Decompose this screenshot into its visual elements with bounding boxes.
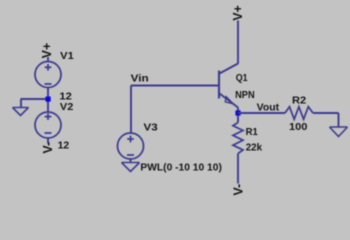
svg-text:R1: R1 — [246, 127, 259, 138]
svg-text:V+: V+ — [231, 5, 245, 21]
wire — [130, 159, 132, 162]
wire — [130, 86, 132, 134]
wire R1 to V- — [237, 154, 239, 184]
svg-text:100: 100 — [289, 122, 308, 133]
svg-text:22k: 22k — [246, 142, 263, 153]
ground (left) — [13, 108, 29, 116]
wire — [313, 112, 339, 114]
svg-text:V2: V2 — [60, 102, 74, 113]
node 12 junction — [46, 97, 51, 102]
voltage source V3 — [118, 133, 144, 159]
svg-text:NPN: NPN — [235, 90, 255, 101]
ground (under V3) — [122, 163, 140, 172]
svg-text:Vout: Vout — [257, 103, 280, 114]
svg-text:V-: V- — [231, 184, 245, 196]
wire — [47, 138, 49, 144]
resistor R2 — [285, 107, 313, 120]
wire node to R1 — [237, 116, 239, 123]
svg-text:Q1: Q1 — [236, 73, 248, 84]
wire — [47, 88, 49, 113]
svg-text:12: 12 — [58, 141, 70, 152]
wire — [338, 113, 340, 127]
svg-text:V1: V1 — [60, 51, 74, 62]
wire Vin horizontal — [131, 85, 219, 87]
transistor Q1 — [219, 64, 238, 114]
svg-text:R2: R2 — [292, 95, 307, 106]
svg-text:V-: V- — [41, 142, 55, 154]
svg-text:V3: V3 — [144, 123, 159, 134]
svg-text:Vin: Vin — [131, 73, 149, 84]
wire — [47, 57, 49, 62]
ground (right) — [330, 127, 348, 137]
voltage source V1 — [35, 62, 61, 88]
voltage source V2 — [35, 112, 61, 138]
resistor R1 — [233, 123, 243, 154]
svg-text:V+: V+ — [40, 43, 54, 59]
wire Vout — [238, 112, 285, 114]
wire — [21, 98, 49, 100]
wire — [20, 99, 22, 107]
wire collector up — [237, 21, 239, 64]
node junction at emitter — [235, 110, 240, 115]
svg-text:12: 12 — [59, 92, 72, 103]
svg-text:PWL(0 -10 10 10): PWL(0 -10 10 10) — [140, 162, 222, 173]
